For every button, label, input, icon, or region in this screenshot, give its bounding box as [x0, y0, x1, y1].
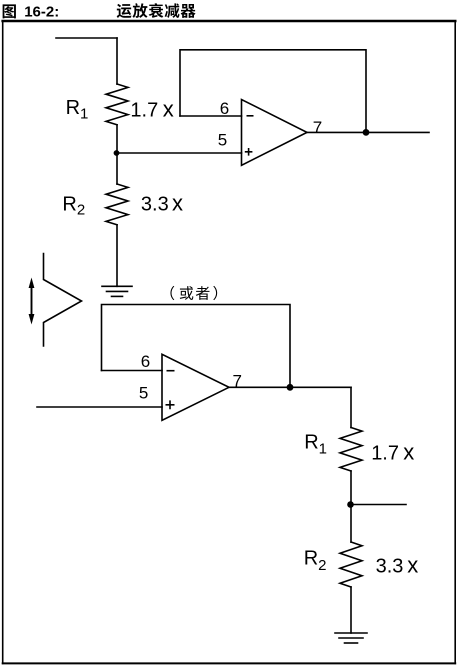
U2 plus: [166, 400, 175, 409]
title char 运: [117, 4, 132, 18]
wire: U1 output: [307, 131, 429, 133]
wire: node to op-amp pin5: [117, 152, 242, 154]
wire: output down to R1 (bottom divider): [350, 387, 352, 427]
svg-text:1.7: 1.7: [371, 442, 399, 464]
wire: non-inverting input pin5 (U2): [37, 406, 162, 408]
junction dot: divider node (bottom): [347, 501, 354, 508]
U2 minus: [167, 370, 175, 372]
svg-text:7: 7: [233, 371, 242, 390]
wire: R2 to ground: [116, 225, 118, 286]
svg-text:16-2:: 16-2:: [24, 4, 59, 21]
op-amp input polarity marks: [166, 116, 254, 409]
svg-text:6: 6: [141, 352, 150, 371]
wire: bottom feedback loop (U2): [102, 305, 291, 388]
U1 plus: [245, 148, 253, 156]
variable arrow heads: [29, 129, 370, 508]
svg-text:x: x: [163, 96, 174, 121]
title char 减: [165, 3, 180, 18]
wire: input to R1 top: [116, 38, 118, 84]
resistor R2 (bottom divider): [340, 542, 362, 587]
wire: U1 feedback loop: [180, 50, 366, 133]
wire: top input stub: [56, 37, 117, 39]
svg-text:5: 5: [139, 383, 148, 402]
op-amp U2 triangle: [162, 354, 229, 420]
svg-text:6: 6: [220, 99, 229, 118]
svg-text:5: 5: [218, 131, 227, 150]
svg-text:x: x: [403, 439, 414, 464]
label char ）: [213, 286, 217, 300]
wire: R2 to ground (bottom divider): [350, 587, 352, 633]
svg-text:3.3: 3.3: [141, 194, 169, 216]
label char 或: [180, 286, 194, 300]
wire: R1 to node: [116, 125, 118, 184]
wire: U2 output: [229, 386, 351, 388]
op-amp U1 triangle: [242, 100, 308, 166]
resistor R1 (top divider): [106, 84, 128, 125]
svg-text:7: 7: [313, 118, 322, 137]
label char 者: [196, 286, 210, 300]
title char 图: [3, 4, 16, 18]
junction dot: U1 output: [363, 129, 370, 136]
ground (top divider): [102, 286, 132, 296]
junction dot: divider node (top): [114, 150, 120, 156]
input source symbol (variable input chevron): [44, 254, 82, 347]
wire: inverting input pin6 (top op-amp): [180, 115, 242, 117]
resistor R2 (top divider): [106, 184, 128, 225]
U1 minus: [247, 115, 254, 117]
ground (bottom divider): [335, 633, 367, 643]
svg-text:x: x: [172, 191, 183, 216]
svg-text:1.7: 1.7: [130, 99, 158, 121]
title char 器: [181, 4, 196, 18]
label char （: [170, 286, 174, 300]
variable arrow shaft: [31, 286, 33, 317]
wire: inverting input pin6 (U2): [102, 370, 163, 372]
resistor R1 (bottom divider): [340, 428, 362, 472]
wire: R1 to node (bottom divider): [350, 471, 352, 542]
svg-text:3.3: 3.3: [376, 556, 404, 578]
junction dot: U2 output: [287, 384, 294, 391]
title char 衰: [149, 3, 164, 18]
svg-text:x: x: [407, 553, 418, 578]
wire: node tap output: [351, 504, 407, 506]
title char 放: [133, 3, 148, 18]
